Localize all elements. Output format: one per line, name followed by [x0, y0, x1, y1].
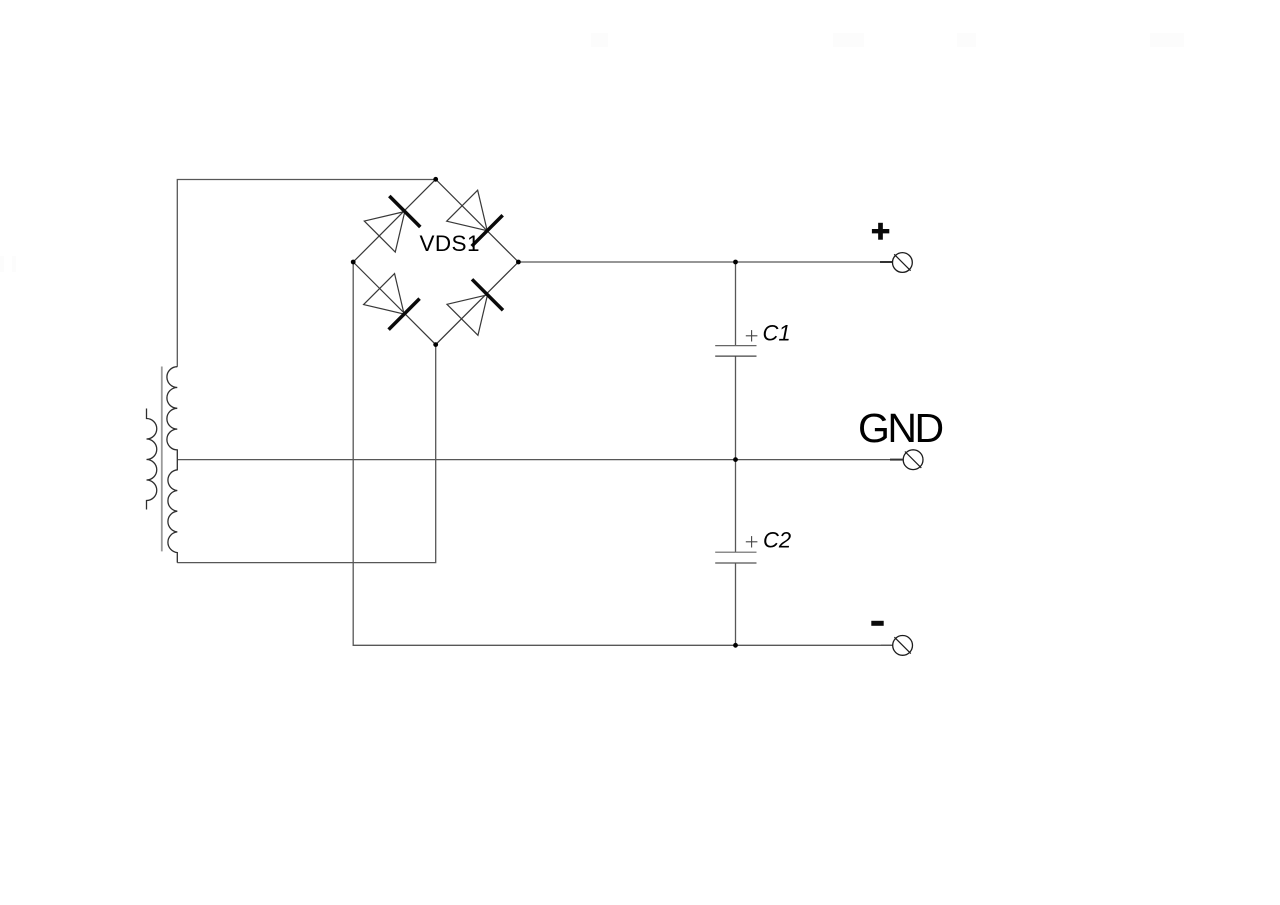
capacitor C1 — [715, 321, 790, 357]
terminal GND — [890, 450, 923, 470]
wire C1 top lead — [735, 262, 737, 346]
wire GND center tap horizontal — [177, 459, 890, 461]
node C2 bottom junction — [733, 643, 738, 648]
terminal minus — [881, 636, 912, 656]
node C1 top junction — [733, 260, 738, 265]
capacitor C2 — [715, 528, 791, 564]
diode D3 bottom-left (cathode to bottom vertex) — [364, 274, 420, 330]
transformer T1 secondary lower winding — [168, 460, 177, 563]
node left vertex — [351, 260, 356, 265]
wire C2 top lead — [735, 460, 737, 553]
diode D1 top-left (cathode to top vertex) — [364, 196, 420, 252]
wire bridge left vertex down and right to minus terminal — [353, 262, 891, 645]
label minus output — [871, 621, 883, 626]
wire C1 bottom lead — [735, 356, 737, 460]
node top vertex — [433, 177, 438, 182]
svg-text:C1: C1 — [763, 321, 791, 346]
svg-text:C2: C2 — [763, 528, 791, 553]
svg-text:VDS1: VDS1 — [420, 231, 480, 256]
svg-text:GND: GND — [858, 405, 943, 451]
transformer core — [161, 367, 163, 552]
transformer T1 secondary upper winding — [167, 367, 177, 460]
diode D2 top-right (cathode to right vertex) — [447, 190, 503, 246]
wire plus output from bridge right vertex — [518, 261, 890, 263]
wire C2 bottom lead — [735, 563, 737, 645]
wire top AC from bridge top vertex to transformer secondary top — [177, 180, 435, 367]
terminal plus — [880, 253, 912, 273]
node bottom vertex — [433, 342, 438, 347]
node right vertex — [516, 260, 521, 265]
wire transformer bottom to bridge bottom vertex — [177, 345, 435, 563]
artifact rects top — [0, 33, 1184, 272]
diode D4 bottom-right (cathode to right vertex) — [447, 279, 503, 335]
transformer T1 primary winding — [147, 409, 157, 510]
label plus output — [872, 223, 889, 240]
node GND junction — [733, 457, 738, 462]
bridge rectifier VDS1 diamond edges — [353, 179, 518, 344]
